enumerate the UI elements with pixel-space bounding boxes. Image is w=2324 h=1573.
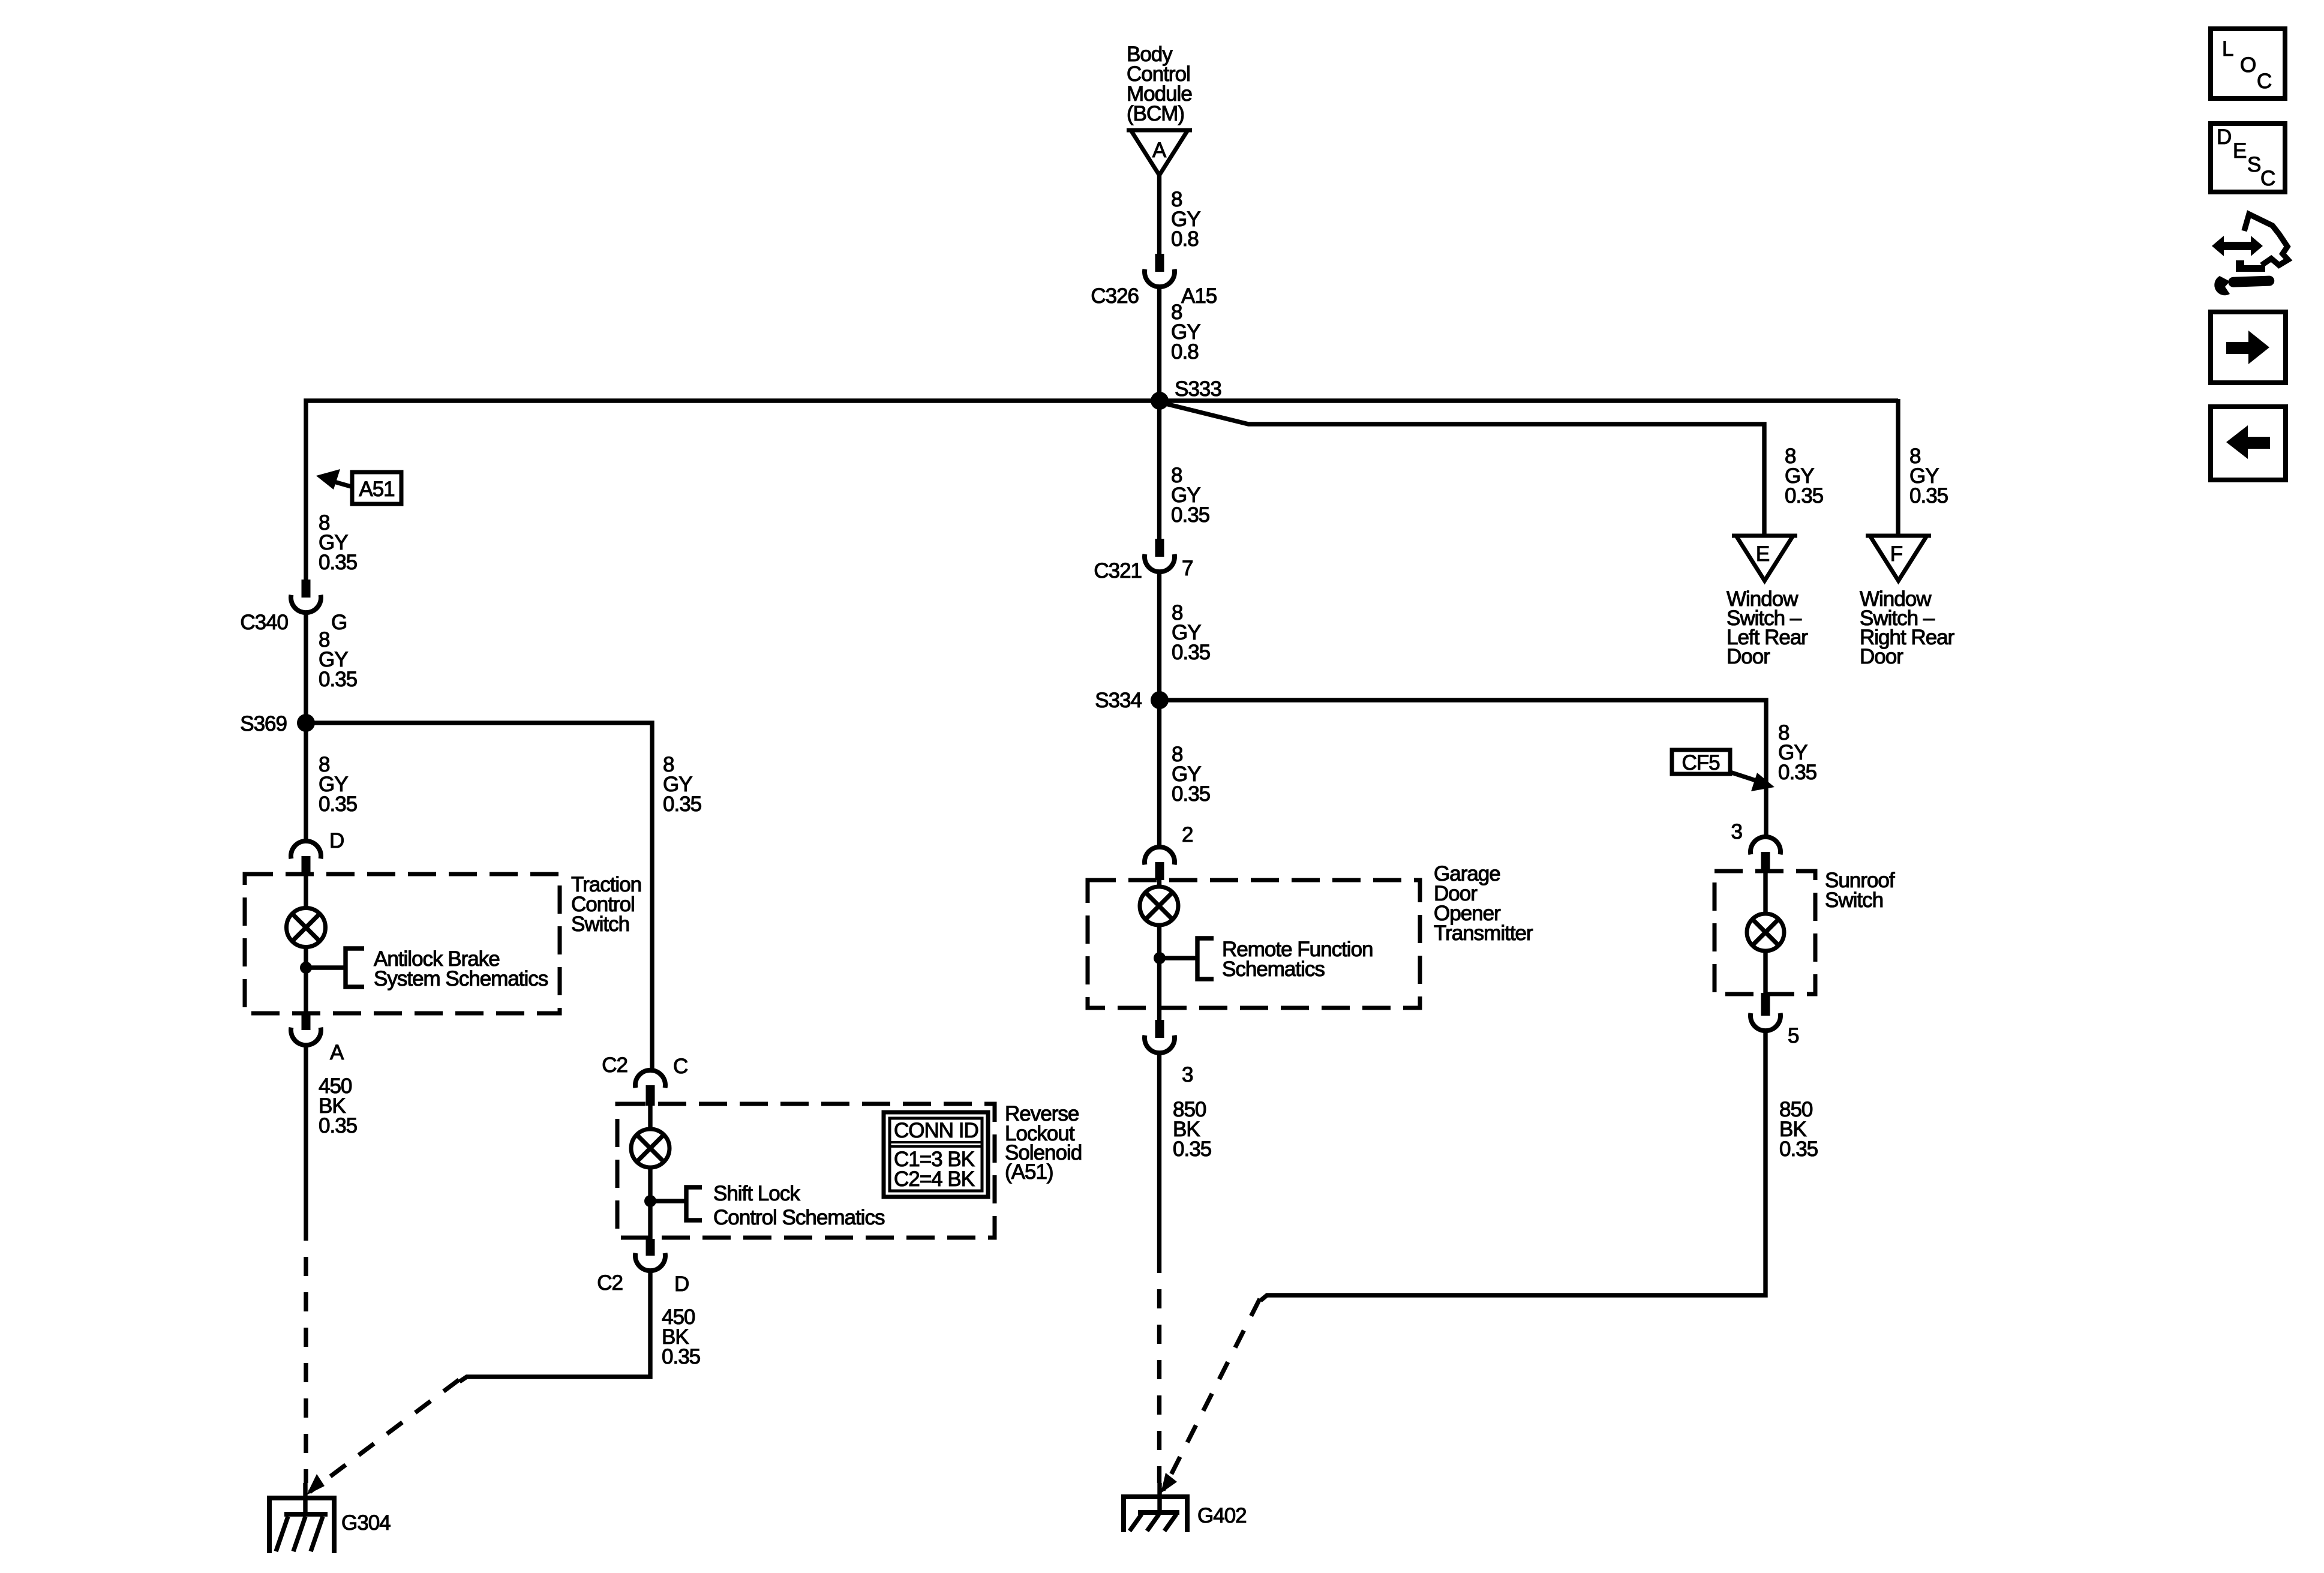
node remote function tap: [1154, 938, 1214, 979]
svg-text:C2: C2: [597, 1271, 623, 1295]
wire S334 to sunroof branch: [1160, 700, 1766, 837]
connector triangle E window switch left rear: [1732, 536, 1797, 581]
svg-text:0.35: 0.35: [319, 792, 357, 816]
wire lamp to D: [648, 1167, 652, 1239]
svg-text:F: F: [1890, 542, 1902, 566]
svg-text:S333: S333: [1175, 377, 1221, 401]
svg-text:S: S: [2247, 153, 2260, 176]
svg-text:(BCM): (BCM): [1127, 102, 1184, 125]
connector C321 pin 7: [1094, 539, 1193, 583]
wire S333 horizontal bus: [306, 401, 1898, 580]
wire D to ground run: [460, 1271, 650, 1382]
svg-text:O: O: [2240, 53, 2256, 77]
svg-text:Schematics: Schematics: [1222, 957, 1325, 981]
svg-text:3: 3: [1731, 820, 1742, 843]
ground G402: [1121, 1483, 1247, 1532]
wire dashed diagonal to G402: [1163, 1299, 1260, 1490]
svg-text:0.35: 0.35: [1778, 761, 1816, 784]
reference label Shift Lock Control Schematics: [713, 1182, 885, 1229]
pin A traction control switch: [291, 1013, 344, 1064]
svg-text:0.35: 0.35: [319, 551, 357, 574]
svg-text:0.35: 0.35: [1171, 503, 1209, 527]
traction control switch box: [245, 874, 560, 1013]
svg-text:E: E: [2233, 139, 2246, 163]
component label Garage Door Opener Transmitter: [1434, 862, 1533, 945]
splice S369: [240, 712, 315, 736]
svg-text:Transmitter: Transmitter: [1434, 921, 1533, 945]
wire BCM to C326: [1157, 174, 1161, 254]
svg-text:C326: C326: [1091, 284, 1139, 308]
wire label 850 BK 0.35: [1173, 1098, 1211, 1161]
wire F branch down: [1896, 399, 1900, 536]
indicator lamp traction control: [287, 908, 326, 947]
reverse lockout solenoid box: [617, 1104, 995, 1238]
reference label Antilock Brake System Schematics: [374, 947, 548, 990]
wire A to ground solid: [304, 1045, 308, 1221]
pin 5 sunroof switch: [1750, 993, 1798, 1047]
wire into lamp: [648, 1106, 652, 1129]
svg-text:0.35: 0.35: [1172, 641, 1210, 664]
svg-text:D: D: [329, 829, 344, 852]
component label Reverse Lockout Solenoid (A51): [1005, 1102, 1082, 1184]
svg-text:0.35: 0.35: [662, 1345, 700, 1368]
svg-text:G402: G402: [1197, 1504, 1247, 1527]
component label Window Switch Left Rear Door: [1727, 587, 1808, 668]
svg-text:0.35: 0.35: [1785, 484, 1823, 508]
svg-text:2: 2: [1182, 823, 1193, 846]
splice S333: [1151, 377, 1221, 410]
component label Traction Control Switch: [571, 873, 641, 936]
connector triangle A (BCM): [1127, 130, 1192, 175]
component label Body Control Module (BCM): [1127, 43, 1192, 125]
indicator lamp sunroof switch: [1747, 914, 1784, 951]
pin C2 C reverse lockout: [602, 1053, 687, 1106]
svg-text:0.35: 0.35: [663, 792, 701, 816]
svg-text:A: A: [330, 1041, 344, 1064]
wire lamp to pin 5: [1763, 951, 1767, 993]
svg-text:D: D: [2217, 125, 2231, 149]
wire label 450 BK 0.35: [319, 1074, 357, 1137]
svg-text:D: D: [674, 1272, 689, 1296]
svg-text:C: C: [2260, 167, 2275, 190]
callout CF5 with arrow: [1672, 750, 1774, 791]
svg-text:Door: Door: [1860, 645, 1903, 668]
wire label 850 BK 0.35: [1779, 1098, 1818, 1161]
svg-text:CONN ID: CONN ID: [894, 1119, 978, 1142]
wire label 450 BK 0.35: [662, 1305, 700, 1368]
wire C340 to D: [304, 613, 308, 841]
svg-text:Switch: Switch: [571, 912, 629, 936]
pin C2 D reverse lockout: [597, 1239, 689, 1296]
svg-text:C: C: [2257, 70, 2271, 93]
wire pin 3 to ground dashed: [1157, 1254, 1161, 1483]
svg-text:0.8: 0.8: [1171, 227, 1199, 251]
wire dashed diagonal to G304: [310, 1380, 459, 1492]
svg-text:5: 5: [1788, 1024, 1798, 1047]
wire into lamp: [1157, 880, 1161, 887]
wire into lamp: [1763, 871, 1767, 914]
component label Window Switch Right Rear Door: [1860, 587, 1955, 668]
svg-text:Control Schematics: Control Schematics: [713, 1206, 885, 1229]
svg-text:0.35: 0.35: [319, 668, 357, 691]
pin 3 garage door opener: [1145, 1020, 1193, 1086]
indicator lamp garage door opener: [1140, 887, 1178, 925]
svg-text:A: A: [1152, 139, 1167, 162]
svg-text:C340: C340: [240, 611, 288, 634]
icon back arrow box: [2211, 407, 2286, 480]
wire label 8 GY 0.35 sunroof feed: [1778, 721, 1816, 784]
svg-text:3: 3: [1182, 1063, 1193, 1086]
svg-text:0.8: 0.8: [1171, 340, 1199, 364]
reference label Remote Function Schematics: [1222, 938, 1373, 981]
svg-text:C: C: [673, 1055, 687, 1078]
svg-text:System Schematics: System Schematics: [374, 967, 548, 990]
wire label 8 GY 0.35: [1172, 601, 1210, 664]
wire label 8 GY 0.35: [1171, 464, 1209, 527]
svg-text:C321: C321: [1094, 559, 1142, 583]
wire pin 3 to ground solid: [1157, 1053, 1161, 1254]
svg-text:0.35: 0.35: [1909, 484, 1948, 508]
svg-text:Shift Lock: Shift Lock: [713, 1182, 800, 1205]
svg-text:S334: S334: [1095, 689, 1142, 712]
callout A51 with arrow: [316, 469, 401, 504]
svg-text:0.35: 0.35: [1173, 1137, 1211, 1161]
connector C326 pin A15: [1145, 254, 1175, 287]
svg-text:A51: A51: [359, 478, 394, 501]
svg-text:CF5: CF5: [1682, 751, 1719, 775]
wire into lamp: [304, 874, 308, 908]
icon diagnostic wrench car arrows: [2212, 214, 2288, 295]
ground G304: [267, 1483, 391, 1553]
wire label 8 GY 0.35: [319, 511, 357, 574]
svg-text:L: L: [2222, 37, 2233, 61]
svg-text:Switch: Switch: [1825, 888, 1883, 912]
svg-text:C2: C2: [602, 1053, 627, 1077]
pin 3 sunroof switch: [1731, 820, 1780, 870]
wire label 8 GY 0.8: [1171, 301, 1200, 364]
svg-text:E: E: [1756, 542, 1769, 566]
wire label 8 GY 0.35: [319, 628, 357, 691]
splice S334: [1095, 689, 1169, 712]
wire label 8 GY 0.8: [1171, 188, 1200, 251]
wire pin 5 to ground run: [1260, 1031, 1765, 1301]
wire lamp to pin 3: [1157, 925, 1161, 1020]
svg-text:Door: Door: [1727, 645, 1770, 668]
svg-text:0.35: 0.35: [319, 1114, 357, 1137]
wire S333 to window switches E branch: [1161, 403, 1764, 536]
wire A to ground dashed: [304, 1221, 308, 1483]
icon next arrow box: [2211, 312, 2286, 383]
wire label 8 GY 0.35: [1785, 445, 1823, 508]
pin 2 garage door opener: [1145, 823, 1193, 880]
pin D traction control switch: [291, 829, 344, 874]
icon DESC box: [2211, 124, 2285, 192]
wire C326 to S333: [1157, 287, 1161, 539]
svg-text:(A51): (A51): [1005, 1160, 1053, 1184]
icon LOC box: [2211, 29, 2285, 98]
node antilock brake tap: [300, 948, 364, 987]
garage door opener transmitter box: [1088, 880, 1420, 1008]
wire lamp to A: [304, 947, 308, 1013]
component label Sunroof Switch: [1825, 869, 1895, 912]
svg-text:C2=4 BK: C2=4 BK: [894, 1167, 975, 1191]
wire center trunk C321 to pin 2: [1157, 572, 1161, 847]
connector triangle F window switch right rear: [1866, 536, 1931, 581]
svg-text:G304: G304: [341, 1511, 391, 1535]
wire label 8 GY 0.35: [1172, 743, 1210, 806]
sunroof switch box: [1715, 871, 1815, 994]
svg-text:7: 7: [1182, 557, 1193, 580]
svg-text:0.35: 0.35: [1172, 782, 1210, 806]
indicator lamp reverse lockout: [631, 1129, 669, 1167]
svg-text:G: G: [331, 611, 347, 634]
wire label 8 GY 0.35: [319, 753, 357, 816]
connector C340 pin G: [291, 580, 321, 613]
node shift lock tap: [644, 1187, 702, 1220]
svg-text:A15: A15: [1181, 284, 1217, 308]
svg-text:0.35: 0.35: [1779, 1137, 1818, 1161]
wire label 8 GY 0.35: [663, 753, 701, 816]
wire S369 to shift branch: [306, 723, 652, 1070]
CONN ID table: [884, 1112, 988, 1197]
wire label 8 GY 0.35: [1909, 445, 1948, 508]
svg-text:S369: S369: [240, 712, 287, 736]
